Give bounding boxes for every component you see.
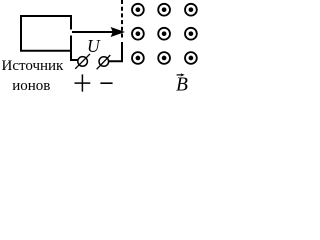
field dot r2c1 — [132, 28, 144, 40]
field dot r1c3 — [185, 4, 197, 16]
svg-text:ионов: ионов — [12, 78, 50, 92]
field dot r1c2 — [158, 4, 170, 16]
left electrode circle — [78, 57, 88, 67]
field dot r3c3 — [185, 52, 197, 64]
svg-text:Источник: Источник — [2, 58, 65, 74]
wire box to left electrode — [71, 51, 78, 60]
field dot r3c1 — [132, 52, 144, 64]
field dot r2c3 — [185, 28, 197, 40]
right electrode slash — [97, 55, 111, 69]
beam arrowhead — [111, 27, 125, 37]
vector arrow over B — [177, 74, 182, 76]
minus sign — [100, 82, 112, 84]
wire right electrode to boundary — [109, 42, 122, 61]
svg-text:U: U — [87, 36, 101, 56]
right electrode circle — [99, 57, 109, 67]
left electrode slash — [75, 54, 90, 69]
field dot r2c2 — [158, 28, 170, 40]
field dot r3c2 — [158, 52, 170, 64]
ion source box — [21, 16, 71, 51]
svg-text:B: B — [176, 74, 188, 92]
field dot r1c1 — [132, 4, 144, 16]
dashed field boundary — [121, 0, 123, 40]
beam arrow shaft — [72, 31, 113, 33]
plus sign — [75, 82, 91, 84]
